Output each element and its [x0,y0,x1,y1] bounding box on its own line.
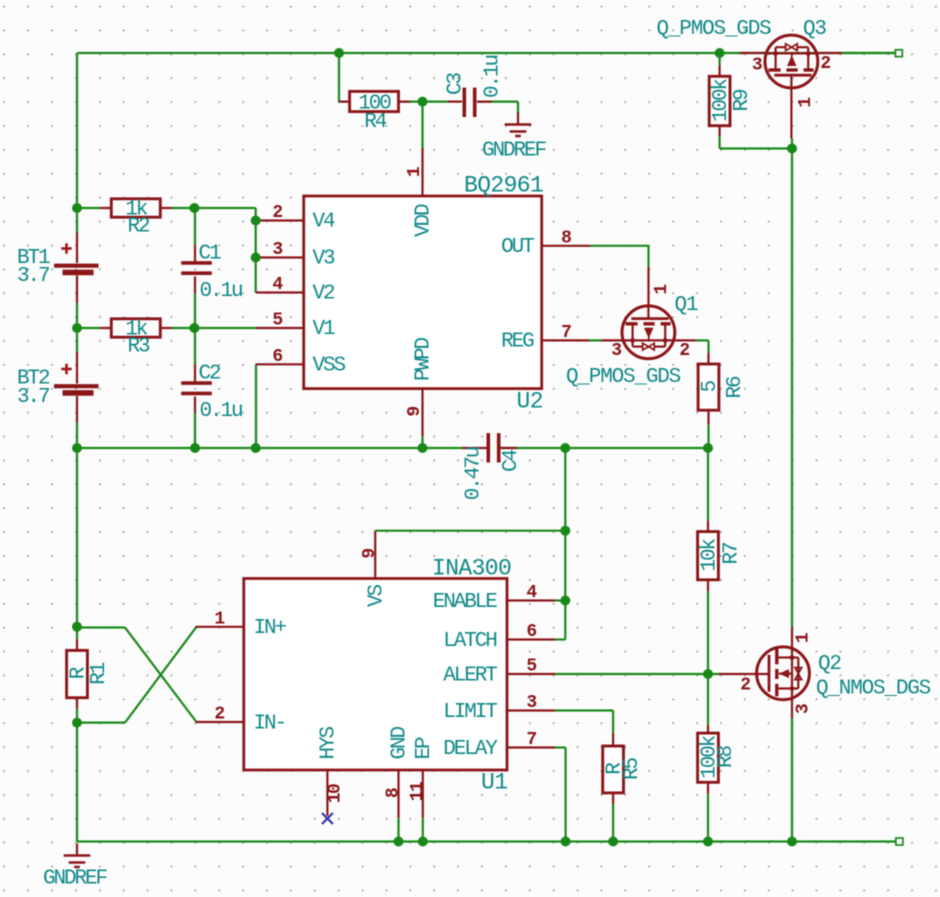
svg-text:R9: R9 [731,89,754,112]
svg-text:VS: VS [365,584,388,607]
svg-text:2: 2 [820,54,830,74]
svg-text:0.47u: 0.47u [463,447,486,500]
wire [172,207,256,209]
U1 pin 6 (LATCH) [507,638,555,640]
junction at (719.6,53) [715,48,725,58]
junction at (792,841.5) [787,837,797,847]
wire [194,413,196,448]
U2 pin 2 (V4) [256,219,304,221]
wire [423,100,448,102]
svg-text:GNDREF: GNDREF [482,140,547,163]
svg-text:IN+: IN+ [254,617,287,640]
wire [397,818,399,842]
junction at (339,53) [334,48,344,58]
junction at (565.6,841.5) [561,837,571,847]
wire [77,721,125,723]
svg-text:5: 5 [699,380,722,392]
wire [194,293,196,328]
wire [76,448,78,639]
svg-text:REG: REG [501,331,534,354]
wire [791,139,793,628]
svg-text:10k: 10k [698,538,721,571]
U1 pin 11 (EP) [422,770,424,818]
U2 pin 5 (V1) [256,327,304,329]
svg-text:11: 11 [408,781,428,801]
U1 pin 2 (IN-) [196,721,244,723]
battery BT2 [17,352,99,423]
svg-text:U1: U1 [481,770,507,796]
svg-text:2: 2 [214,705,224,725]
junction at (195,448) [190,443,200,453]
wire [421,437,423,448]
U1 pin 4 (ENABLE) [507,599,555,601]
svg-text:C3: C3 [445,73,468,96]
svg-text:GND: GND [389,726,412,759]
junction at (398.5,841.5) [394,837,404,847]
svg-text:3: 3 [752,56,762,76]
svg-text:C4: C4 [500,450,523,473]
U1 pin 8 (GND) [397,770,399,818]
wire [255,208,257,293]
wire [399,100,423,102]
svg-text:Q2: Q2 [818,653,841,676]
svg-text:8: 8 [384,788,404,798]
junction at (422.5,101.6) [418,97,428,107]
svg-text:2: 2 [679,341,689,361]
junction at (194.4,208) [189,203,199,213]
wire [564,448,566,640]
wire [194,208,196,245]
junction at (422.5,448) [418,443,428,453]
junction at (565.3,530.7) [560,526,570,536]
wire [76,709,78,842]
power GNDREF bottom [43,844,108,891]
svg-text:R5: R5 [621,758,644,781]
wire [612,804,614,841]
U2 pin 6 (VSS) [256,363,304,365]
svg-text:Q3: Q3 [803,18,826,41]
capacitor C4 [462,433,523,500]
svg-text:8: 8 [561,228,571,248]
U1 pin 5 (ALERT) [507,673,555,675]
svg-text:5: 5 [272,311,282,331]
op-amp U1 INA300 [196,531,555,818]
wire [707,425,709,448]
wire [125,628,197,723]
svg-text:R4: R4 [364,111,387,134]
svg-text:VDD: VDD [413,204,436,237]
svg-text:R1: R1 [88,662,111,685]
capacitor C2 [181,363,242,424]
svg-text:OUT: OUT [501,236,534,259]
junction at (422.8,841.5) [418,837,428,847]
resistor R7 [698,521,744,592]
svg-text:HYS: HYS [318,726,341,759]
junction at (194.4,328) [189,323,199,333]
svg-text:0.1u: 0.1u [200,400,243,423]
U2 pin 9 (PWPD) [421,389,423,437]
wire [77,626,125,628]
capacitor C1 [181,243,242,304]
U1 pin 7 (DELAY) [507,746,555,748]
U1 pin 10 (HYS) [326,770,328,816]
transistor Q3 [657,18,842,139]
junction at (613.1,841.5) [608,837,618,847]
junction at (77,722.6) [72,718,82,728]
transistor Q1 [566,267,698,389]
svg-text:0.1u: 0.1u [200,280,243,303]
svg-text:R2: R2 [127,216,150,239]
svg-text:DELAY: DELAY [443,738,498,761]
wire [77,327,100,329]
svg-text:10: 10 [325,784,345,803]
wire [707,448,709,521]
wire [375,530,565,532]
svg-text:Q1: Q1 [675,294,698,317]
wire [555,748,566,842]
wire [77,207,100,209]
U1 pin 3 (LIMIT) [507,709,555,711]
svg-text:0.1u: 0.1u [482,56,505,99]
wire [555,673,719,675]
wire [791,718,793,842]
junction at (792,148.5) [787,144,797,154]
wire [555,638,565,640]
svg-text:7: 7 [526,730,536,750]
wire [720,137,792,149]
wire [501,447,709,449]
svg-text:V1: V1 [313,318,336,341]
svg-text:6: 6 [526,622,536,642]
svg-text:R7: R7 [721,543,744,565]
junction at (77,208) [72,203,82,213]
wire [422,818,424,842]
resistor R6 [698,353,747,425]
svg-text:R6: R6 [724,376,747,399]
wire [255,364,257,448]
svg-text:ENABLE: ENABLE [433,591,498,614]
svg-text:3: 3 [794,704,814,714]
svg-text:9: 9 [360,549,380,559]
svg-text:2: 2 [740,676,750,696]
open end top right [895,50,902,57]
wire [421,102,423,148]
svg-text:VSS: VSS [313,355,346,378]
svg-text:Q_NMOS_DGS: Q_NMOS_DGS [816,678,931,701]
junction at (77,328) [72,323,82,333]
wire [590,246,649,267]
svg-text:2: 2 [272,203,282,223]
U1 pin 1 (IN+) [196,626,244,628]
svg-text:V4: V4 [313,211,336,234]
svg-text:LIMIT: LIMIT [443,701,497,724]
svg-text:9: 9 [405,407,425,417]
svg-text:Q_PMOS_GDS: Q_PMOS_GDS [566,366,681,389]
junction at (77,448) [72,443,82,453]
U2 pin 1 (VDD) [421,148,423,196]
junction at (565.3,600.5) [560,596,570,606]
svg-text:100k: 100k [710,79,733,123]
power GNDREF top [482,113,547,163]
wire [76,423,78,449]
wire [125,627,197,723]
svg-text:IN-: IN- [254,712,286,735]
wire [77,447,462,449]
junction at (565.3,448) [560,443,570,453]
svg-text:ALERT: ALERT [443,664,497,687]
junction at (255.7,448) [251,443,261,453]
wire [76,53,78,233]
open end bottom right [896,838,903,845]
wire [477,102,518,115]
wire [842,52,895,54]
svg-text:Q_PMOS_GDS: Q_PMOS_GDS [657,18,772,41]
U2 pin 8 (OUT) [542,245,590,247]
svg-text:LATCH: LATCH [443,630,496,653]
wire [707,591,709,725]
wire [339,53,350,102]
svg-text:5: 5 [526,657,536,677]
svg-text:3.7: 3.7 [17,386,49,409]
svg-text:3: 3 [611,341,621,361]
wire [589,339,602,341]
resistor R8 [698,725,738,794]
svg-text:C1: C1 [199,243,222,266]
resistor R9 [709,66,754,137]
svg-text:V2: V2 [313,283,336,306]
resistor R2 [100,198,171,238]
svg-text:INA300: INA300 [432,556,511,582]
svg-text:GNDREF: GNDREF [43,868,108,891]
svg-text:PWPD: PWPD [413,337,436,381]
junction at (708,841.5) [703,837,713,847]
wire [76,303,78,352]
resistor R1 [67,639,111,709]
wire [555,599,565,601]
op-amp U2 BQ2961 [256,148,590,437]
resistor R3 [100,318,171,358]
svg-text:EP: EP [413,737,436,760]
transistor Q2 [719,627,931,718]
U1 pin 9 (VS) [374,531,376,579]
wire [696,340,709,352]
junction at (77,626.7) [72,622,82,632]
resistor R5 [603,733,644,804]
wire [707,794,709,842]
battery BT1 [17,233,99,304]
svg-text:BQ2961: BQ2961 [464,173,543,199]
U2 pin 4 (V2) [256,291,304,293]
junction at (255.7,220.5) [251,216,261,226]
svg-text:U2: U2 [517,389,543,415]
U2 pin 7 (REG) [542,339,589,341]
wire [172,327,256,329]
svg-text:V3: V3 [313,248,336,271]
junction at (255.7,257.5) [251,253,261,263]
resistor R4 [339,91,410,134]
junction at (708,674) [703,669,713,679]
wire [77,840,896,842]
svg-text:3: 3 [272,240,282,260]
svg-text:7: 7 [561,323,571,343]
svg-text:R3: R3 [127,336,150,359]
capacitor C3 [445,56,505,117]
svg-text:C2: C2 [199,363,222,386]
svg-text:6: 6 [272,347,282,367]
junction at (708,448) [703,443,713,453]
svg-text:3.7: 3.7 [17,265,49,288]
wire [555,711,613,734]
wire [77,52,895,54]
wire [718,53,720,66]
svg-text:3: 3 [526,693,536,713]
wire [194,328,196,365]
svg-text:R8: R8 [715,746,738,769]
no-connect HYS [322,813,333,824]
U2 pin 3 (V3) [256,256,304,258]
